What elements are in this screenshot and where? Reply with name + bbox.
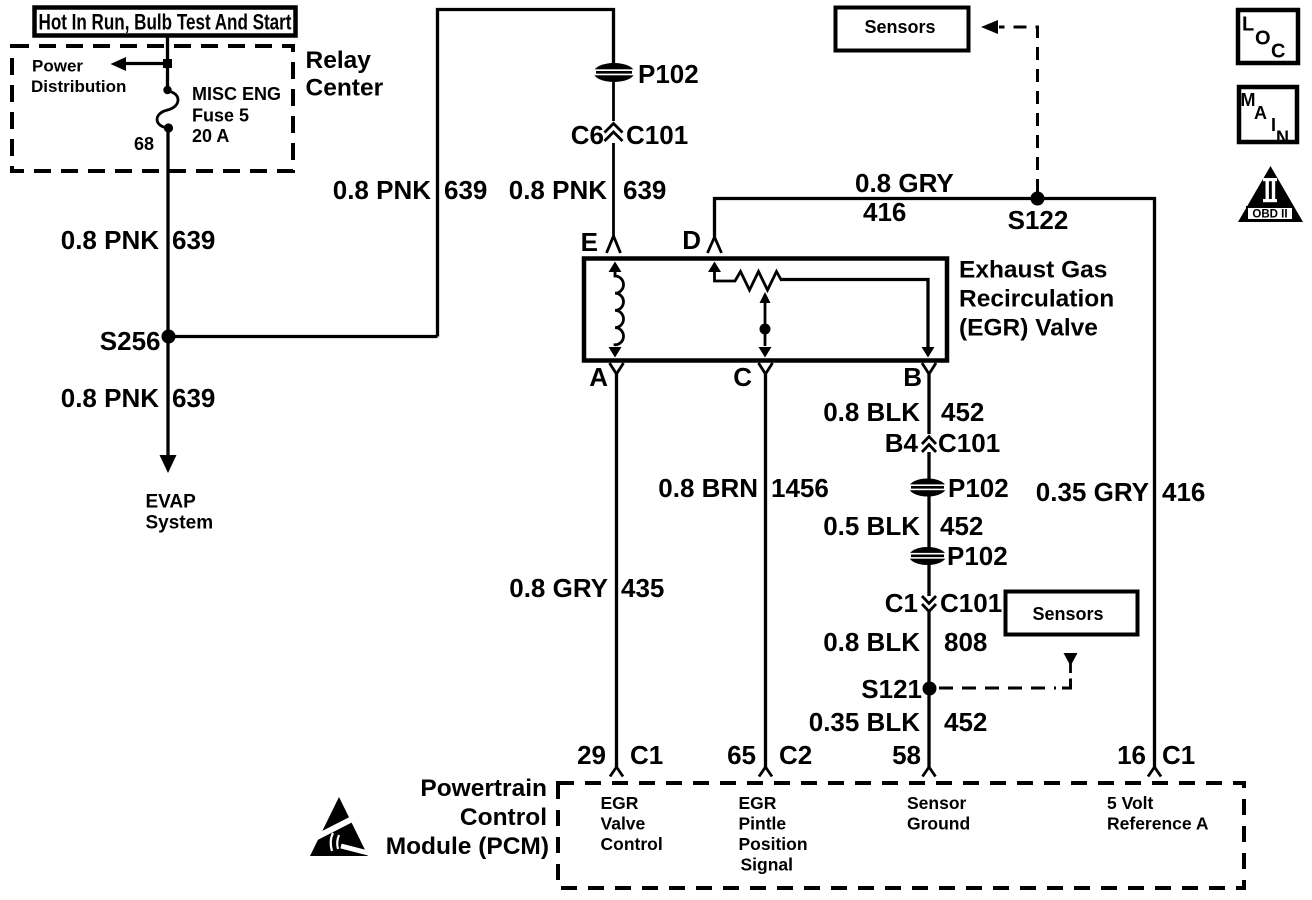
PCM pin label 5 Volt Reference A (1107, 793, 1209, 834)
LOC page symbol (1238, 10, 1298, 63)
svg-text:0.8 PNK: 0.8 PNK (333, 175, 431, 205)
fuse MISC ENG Fuse 5 20A (157, 86, 178, 133)
wire S256 branch to riser (169, 335, 438, 338)
svg-text:Pintle: Pintle (739, 814, 787, 834)
svg-text:C101: C101 (626, 120, 688, 150)
PCM terminal 65 C2 (727, 740, 812, 777)
svg-text:0.8 BLK: 0.8 BLK (823, 397, 920, 427)
svg-text:Distribution: Distribution (31, 77, 126, 96)
svg-text:0.8 PNK: 0.8 PNK (61, 383, 159, 413)
svg-text:0.5 BLK: 0.5 BLK (823, 511, 920, 541)
terminal B (903, 362, 936, 392)
connector C1 C101 (885, 588, 1002, 618)
svg-text:Hot In Run, Bulb Test And Star: Hot In Run, Bulb Test And Start (39, 10, 292, 35)
svg-text:416: 416 (1162, 477, 1205, 507)
svg-text:C6: C6 (571, 120, 604, 150)
svg-text:C101: C101 (940, 588, 1002, 618)
svg-text:P102: P102 (638, 59, 699, 89)
svg-text:452: 452 (941, 397, 984, 427)
arrow from sensors box (1064, 653, 1078, 673)
grommet P102 (middle) (907, 473, 1009, 503)
svg-text:Center: Center (306, 75, 384, 102)
svg-text:16: 16 (1117, 740, 1146, 770)
svg-text:Sensors: Sensors (1032, 604, 1103, 624)
feed label box "Hot In Run, Bulb Test And Start" (35, 8, 296, 36)
PCM terminal 16 C1 (1117, 740, 1195, 777)
PCM dashed box (558, 783, 1244, 888)
svg-text:EVAP: EVAP (146, 492, 197, 513)
power distribution label (31, 57, 126, 97)
svg-text:B4: B4 (885, 428, 919, 458)
svg-text:C: C (733, 362, 752, 392)
svg-text:0.8 GRY: 0.8 GRY (509, 573, 608, 603)
svg-text:68: 68 (134, 134, 154, 154)
EVAP System label (146, 492, 214, 534)
arrow into sensors box (981, 20, 998, 34)
svg-text:Valve: Valve (601, 814, 646, 834)
terminal D (682, 225, 721, 255)
svg-text:Control: Control (460, 804, 547, 831)
terminal A (589, 362, 623, 392)
svg-text:S256: S256 (100, 326, 161, 356)
ESD warning symbol (310, 797, 372, 856)
sensors box (top) (836, 8, 969, 51)
svg-text:Control: Control (601, 834, 663, 854)
grommet P102 (lower) (907, 541, 1008, 571)
svg-text:639: 639 (623, 175, 666, 205)
svg-text:E: E (581, 227, 598, 257)
potentiometer D to B (708, 262, 935, 358)
connector B4 C101 (885, 428, 1000, 458)
svg-text:C101: C101 (938, 428, 1000, 458)
sensors box (lower) (1006, 592, 1138, 635)
label 0.8 BRN 1456 (658, 473, 829, 503)
PCM terminal 58 (892, 740, 935, 777)
svg-text:EGR: EGR (739, 793, 777, 813)
svg-text:0.8 BRN: 0.8 BRN (658, 473, 758, 503)
svg-text:B: B (903, 362, 922, 392)
wire fuse to S256 (166, 128, 169, 336)
svg-text:Signal: Signal (741, 855, 794, 875)
svg-text:(EGR) Valve: (EGR) Valve (959, 315, 1098, 342)
label 0.35 BLK 452 (809, 707, 988, 737)
splice S121 (861, 674, 936, 704)
PCM name label (386, 775, 549, 860)
svg-text:0.8 BLK: 0.8 BLK (823, 627, 920, 657)
svg-text:C2: C2 (779, 740, 812, 770)
svg-text:L: L (1242, 14, 1254, 36)
wire C down to PCM 65 (764, 374, 767, 767)
wire A down to PCM 29 (615, 374, 618, 767)
svg-text:0.8 GRY: 0.8 GRY (855, 168, 954, 198)
label 0.8 PNK 639 (upper left) (61, 225, 216, 255)
svg-text:Reference A: Reference A (1107, 814, 1209, 834)
svg-text:452: 452 (940, 511, 983, 541)
svg-text:C1: C1 (1162, 740, 1195, 770)
svg-text:0.35 BLK: 0.35 BLK (809, 707, 920, 737)
wire P102 to C101 (612, 82, 615, 121)
MAIN page symbol (1239, 87, 1297, 148)
EGR valve name label (959, 257, 1114, 342)
svg-text:Powertrain: Powertrain (420, 775, 547, 802)
label 0.8 GRY 435 (509, 573, 664, 603)
svg-text:MISC ENG: MISC ENG (192, 84, 281, 104)
OBD II symbol (1238, 166, 1303, 222)
svg-text:0.8 PNK: 0.8 PNK (61, 225, 159, 255)
dashed wire S121 to sensors (939, 687, 1056, 690)
svg-text:808: 808 (944, 627, 987, 657)
svg-text:EGR: EGR (601, 793, 639, 813)
svg-text:P102: P102 (947, 541, 1008, 571)
svg-text:58: 58 (892, 740, 921, 770)
relay center dashed box (12, 46, 293, 171)
svg-text:Power: Power (32, 57, 83, 76)
label 0.8 BLK 808 (823, 627, 987, 657)
wire to power distribution arrow (126, 62, 166, 65)
svg-text:0.35 GRY: 0.35 GRY (1036, 477, 1149, 507)
label 0.8 BLK 452 (823, 397, 984, 427)
svg-text:N: N (1276, 128, 1289, 148)
svg-text:A: A (1254, 103, 1267, 123)
svg-text:435: 435 (621, 573, 664, 603)
terminal C (733, 362, 772, 392)
svg-text:639: 639 (444, 175, 487, 205)
svg-text:452: 452 (944, 707, 987, 737)
svg-text:5 Volt: 5 Volt (1107, 793, 1154, 813)
label 0.8 PNK 639 (lower left) (61, 383, 216, 413)
EGR valve box (584, 259, 947, 361)
connector C6 C101 (571, 120, 688, 150)
svg-text:OBD II: OBD II (1252, 209, 1287, 221)
svg-text:System: System (146, 513, 214, 534)
svg-text:Ground: Ground (907, 814, 970, 834)
label 0.35 GRY 416 (1036, 477, 1206, 507)
PCM terminal 29 C1 (577, 740, 663, 777)
fuse value label (192, 84, 281, 146)
wire C101 to EGR terminal E (612, 143, 615, 236)
splice S122 (1008, 192, 1069, 236)
svg-text:Sensor: Sensor (907, 793, 967, 813)
svg-text:639: 639 (172, 225, 215, 255)
svg-text:C: C (1271, 41, 1285, 63)
grommet P102 (top) (592, 59, 699, 89)
svg-text:Exhaust Gas: Exhaust Gas (959, 257, 1107, 284)
svg-text:C1: C1 (630, 740, 663, 770)
label 0.8 PNK 639 (above E) (509, 175, 667, 205)
label 0.8 PNK 639 (riser) (333, 175, 488, 205)
wire riser up and across to P102 (438, 10, 614, 337)
svg-text:1456: 1456 (771, 473, 829, 503)
svg-text:Fuse 5: Fuse 5 (192, 106, 249, 126)
svg-text:O: O (1255, 28, 1271, 50)
relay center label (306, 47, 384, 102)
svg-text:A: A (589, 362, 608, 392)
node junction to power distribution (163, 59, 172, 68)
svg-text:20 A: 20 A (192, 126, 229, 146)
PCM pin label EGR Pintle Position Signal (739, 793, 808, 875)
wire junction to fuse (166, 63, 169, 88)
terminal E (581, 227, 621, 257)
svg-text:Recirculation: Recirculation (959, 286, 1114, 313)
arrow to power distribution (111, 57, 127, 71)
svg-text:D: D (682, 225, 701, 255)
wire from feed box into relay box (166, 36, 169, 61)
wire D up and across to right side (715, 199, 1155, 768)
dashed wire S122 up to sensors (999, 27, 1038, 192)
potentiometer wiper to C (759, 292, 772, 358)
label 0.5 BLK 452 (823, 511, 983, 541)
svg-text:P102: P102 (948, 473, 1009, 503)
arrow to EVAP system (160, 455, 177, 473)
svg-text:S121: S121 (861, 674, 922, 704)
solenoid coil E to A (609, 262, 624, 358)
svg-text:S122: S122 (1008, 205, 1069, 235)
wire B down to PCM 58 (927, 374, 930, 767)
svg-text:Sensors: Sensors (864, 17, 935, 37)
svg-text:Module (PCM): Module (PCM) (386, 833, 549, 860)
svg-text:29: 29 (577, 740, 606, 770)
svg-text:65: 65 (727, 740, 756, 770)
PCM pin label Sensor Ground (907, 793, 970, 834)
svg-text:639: 639 (172, 383, 215, 413)
label 0.8 GRY 416 (855, 168, 954, 227)
PCM pin label EGR Valve Control (601, 793, 663, 854)
svg-text:Relay: Relay (306, 47, 372, 74)
svg-text:C1: C1 (885, 588, 918, 618)
splice S256 (100, 326, 176, 356)
svg-text:416: 416 (863, 197, 906, 227)
wire S256 down to EVAP (166, 337, 169, 457)
svg-text:Position: Position (739, 834, 808, 854)
svg-text:0.8 PNK: 0.8 PNK (509, 175, 607, 205)
